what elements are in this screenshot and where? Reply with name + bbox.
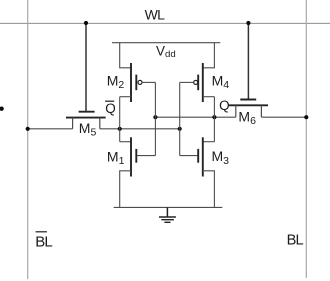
transistor M2 channel bar: [130, 63, 132, 102]
ground symbol bar 1: [159, 216, 176, 218]
transistor M4 channel bar: [202, 63, 204, 102]
svg-text:M3: M3: [212, 148, 230, 167]
transistor M1 gate bar: [135, 149, 137, 163]
transistor M1 channel bar: [130, 137, 132, 176]
node junction dot WL-M5 gate: [84, 21, 88, 25]
node junction dot on BL-bar: [26, 127, 30, 131]
wire M6 drain stub: [260, 105, 262, 117]
node junction dot Qbar: [118, 127, 122, 131]
wire M3 top lead: [203, 141, 215, 143]
wire Qbar row: M5 drain to Qbar node to M3 gate line: [100, 128, 180, 130]
transistor M4 gate bar: [197, 75, 199, 91]
svg-text:BL: BL: [287, 232, 304, 248]
svg-text:M6: M6: [238, 108, 256, 127]
wire Q node vertical: [213, 97, 215, 142]
wire M2 source lead to Vdd: [120, 43, 131, 68]
Qbar overbar: [105, 100, 114, 102]
svg-text:Vdd: Vdd: [156, 44, 176, 60]
wire M1 gate to gate line: [137, 155, 155, 157]
transistor M5 gate bar: [79, 111, 95, 113]
wire M4 gate to gate line: [180, 81, 194, 83]
svg-text:Q: Q: [219, 98, 230, 113]
wire M2 drain lead: [120, 96, 131, 98]
wire M5 source stub: [72, 118, 74, 129]
node junction dot Q: [212, 115, 216, 119]
wire M6 source stub: [235, 105, 237, 117]
wire M4 drain lead: [203, 96, 215, 98]
svg-text:Q: Q: [105, 101, 116, 116]
transistor M6 channel bar: [229, 104, 268, 106]
wire M6 drain to BL: [261, 116, 306, 118]
wire M3 source lead to ground rail: [203, 171, 215, 208]
transistor M2 gate bar: [135, 75, 137, 91]
stray dot left edge: [0, 107, 4, 111]
node junction dot on BL: [304, 115, 308, 119]
wire M6 gate from WL: [247, 23, 249, 100]
transistor M5 channel bar: [66, 117, 106, 119]
wire M2 gate to gate line: [142, 81, 155, 83]
wire M5 drain stub: [99, 118, 101, 129]
svg-text:BL: BL: [35, 233, 52, 250]
transistor M3 gate bar: [197, 149, 199, 163]
node junction dot M4-M3 gate line on Qbar wire: [178, 127, 182, 131]
wire M1 source lead to ground rail: [120, 171, 131, 208]
node junction dot WL-M6 gate: [246, 21, 250, 25]
wire BL-bar bit line left vertical: [27, 0, 29, 279]
wire Vdd rail: [112, 42, 220, 44]
wire BLbar to M5 source: [28, 128, 73, 130]
svg-text:M4: M4: [212, 73, 230, 92]
wire Q row: M2 gate line to Q node to M6 source: [155, 116, 235, 118]
ground symbol bar 3: [164, 221, 170, 223]
wire M4 source lead to Vdd: [203, 43, 215, 68]
svg-text:M1: M1: [107, 148, 125, 167]
svg-text:M2: M2: [107, 73, 125, 92]
node junction dot M2-M1 gate line on Q wire: [153, 115, 157, 119]
wire right inverter gate line vertical: [179, 82, 181, 155]
wire ground rail: [114, 206, 223, 208]
wire M5 gate from WL: [85, 23, 87, 112]
BL-bar overbar: [36, 231, 47, 233]
wire WL word line horizontal: [0, 22, 330, 24]
wire M3 gate to gate line: [180, 155, 198, 157]
wire BL bit line right vertical: [305, 0, 307, 278]
transistor M4 gate bubble: [194, 80, 198, 84]
transistor M2 gate bubble: [138, 80, 142, 84]
transistor M3 channel bar: [202, 137, 204, 176]
wire Qbar node vertical: [119, 97, 121, 142]
wire M1 top lead: [120, 141, 131, 143]
ground symbol stem: [166, 207, 168, 217]
wire left inverter gate line vertical: [154, 82, 156, 155]
svg-text:WL: WL: [145, 6, 166, 22]
transistor M6 gate bar: [240, 99, 256, 101]
svg-text:M5: M5: [79, 120, 97, 139]
ground symbol bar 2: [161, 219, 174, 221]
